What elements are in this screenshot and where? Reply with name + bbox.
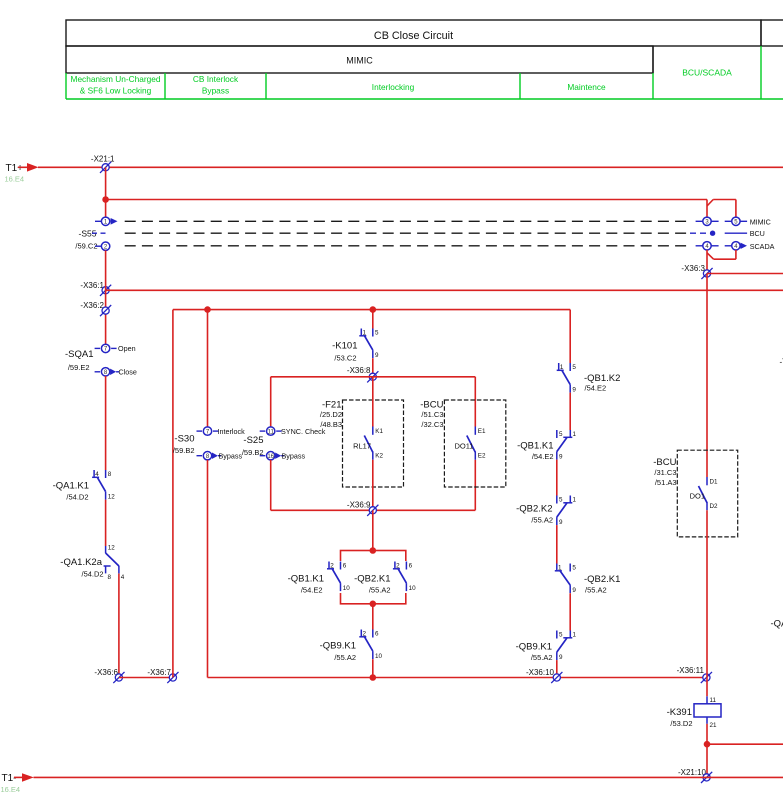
wire x707 SCADA contact to -X36:3 (706, 250, 708, 274)
terminal -X36:11 (677, 666, 712, 683)
switch -S25 contact 11 SYNC Check (260, 427, 326, 436)
switch -S55 label (75, 229, 97, 251)
svg-text:5: 5 (572, 564, 576, 571)
svg-text:Close: Close (119, 368, 137, 377)
wire T1+ arrow (18, 163, 39, 172)
header BCU/SCADA cell (653, 46, 761, 99)
svg-text:5: 5 (559, 631, 563, 638)
wire QB9.K1 to bottom bus (372, 659, 374, 677)
wire between S55 and -X36:2 (105, 250, 107, 344)
terminal -X36:2 (80, 301, 111, 316)
wire QB2.K1 to QB9.K1 right (569, 593, 571, 630)
svg-text:-QB2.K2: -QB2.K2 (516, 503, 552, 514)
svg-text:-X36:9: -X36:9 (347, 501, 371, 510)
relay box -BCU DO1 (653, 450, 737, 537)
junction parallel box top (370, 547, 377, 554)
contact -K101 (332, 310, 379, 363)
junction at left branch (102, 196, 109, 203)
svg-text:5: 5 (572, 364, 576, 371)
wire QB2.K2 to QB2.K1 (556, 525, 558, 563)
terminal -X36:7 (147, 668, 178, 683)
svg-text:1: 1 (560, 364, 564, 371)
svg-text:-T1: -T1 (780, 358, 783, 367)
wire outer box left edge (172, 310, 174, 678)
contact 5 MIMIC right (725, 217, 747, 225)
svg-text:4: 4 (121, 574, 125, 581)
contact -QB1.K2 (557, 363, 621, 394)
svg-text:6: 6 (343, 562, 347, 569)
wire K101 to -X36:8 (372, 358, 374, 377)
contact 3 MIMIC left (696, 217, 719, 225)
svg-text:21: 21 (710, 722, 718, 729)
svg-text:-X36:6: -X36:6 (94, 668, 118, 677)
svg-text:2: 2 (363, 630, 367, 637)
svg-text:/32.C3: /32.C3 (421, 420, 443, 429)
node T1- label (1, 773, 21, 794)
contact DO1 in BCU box (690, 477, 718, 510)
svg-text:12: 12 (108, 545, 116, 552)
svg-text:12: 12 (108, 494, 116, 501)
junction K101 top (370, 306, 377, 313)
clipped label right edge -QA (771, 619, 783, 630)
header title box CB Close Circuit (66, 20, 761, 46)
svg-text:10: 10 (409, 585, 417, 592)
label MIMIC (750, 217, 771, 226)
clipped label right edge upper (780, 358, 783, 367)
wire QA1.K1 to QA1.K2a (105, 500, 107, 546)
svg-text:16: 16 (267, 454, 274, 460)
contact -QB2.K1 right branch (555, 564, 621, 595)
terminal -X21:1 (91, 155, 115, 173)
svg-text:-X21:10: -X21:10 (678, 768, 707, 777)
switch -SQA1 contact 7 Open (95, 344, 136, 353)
svg-text:9: 9 (375, 352, 379, 359)
switch -S30 labels (173, 434, 195, 456)
svg-text:/55.A2: /55.A2 (585, 586, 607, 595)
wire outer box top edge (173, 309, 570, 311)
svg-text:-X36:3: -X36:3 (681, 264, 705, 273)
junction below K391 (704, 741, 711, 748)
svg-text:6: 6 (409, 562, 413, 569)
switch -S25 labels (242, 435, 264, 457)
svg-text:-QB9.K1: -QB9.K1 (516, 642, 552, 653)
switch -S55 contact 2 (95, 242, 110, 250)
svg-text:/55.A2: /55.A2 (369, 586, 391, 595)
switch -S30 contact 7 Interlock (197, 427, 246, 436)
relay coil -K391 (667, 696, 721, 729)
wire inner box right lower (474, 460, 476, 511)
svg-text:/59.B2: /59.B2 (173, 446, 195, 455)
terminal -X36:3 (681, 264, 712, 279)
wire x707 down to MIMIC contact (706, 200, 708, 218)
svg-text:-X36:7: -X36:7 (147, 668, 171, 677)
wire right branch upper jog (707, 200, 736, 218)
svg-text:-QB2.K1: -QB2.K1 (354, 574, 390, 585)
svg-text:/54.E2: /54.E2 (585, 384, 607, 393)
svg-text:-BCU: -BCU (653, 457, 676, 468)
wire QB9.K1 to -X36:10 (556, 660, 558, 677)
parallel box red rectangle (341, 551, 406, 604)
wire from -X21:1 down (105, 167, 107, 217)
header right stub box (761, 20, 783, 46)
node T1+ label (5, 163, 25, 184)
svg-text:-QB2.K1: -QB2.K1 (584, 574, 620, 585)
svg-text:BCU/SCADA: BCU/SCADA (682, 68, 732, 78)
header MIMIC box (66, 46, 653, 73)
junction S30 top (204, 306, 211, 313)
svg-text:-X36:8: -X36:8 (347, 366, 371, 375)
label BCU (750, 229, 765, 238)
svg-text:T1+: T1+ (6, 163, 24, 174)
terminal -X36:9 (347, 501, 378, 516)
svg-text:E2: E2 (478, 453, 486, 460)
wire X36:9 to parallel box (372, 510, 374, 550)
svg-text:2: 2 (330, 562, 334, 569)
contact -QB2.K1 parallel right (354, 561, 416, 595)
svg-text:-QA1.K1: -QA1.K1 (53, 480, 89, 491)
wire QA1.K2a to -X36:6 (118, 574, 120, 678)
svg-text:/55.A2: /55.A2 (531, 516, 553, 525)
relay box -BCU DO11 (420, 400, 506, 487)
svg-text:-S25: -S25 (243, 435, 263, 446)
svg-text:Bypass: Bypass (282, 452, 306, 461)
svg-text:9: 9 (559, 454, 563, 461)
wire F21 to -X36:9 (372, 460, 374, 511)
contact -QB9.K1 right branch (516, 631, 577, 663)
wire right branch lower jog (707, 250, 736, 259)
svg-text:11: 11 (710, 697, 717, 704)
svg-text:4: 4 (95, 471, 99, 478)
svg-text:1: 1 (573, 631, 577, 638)
terminal -X36:6 (94, 668, 124, 683)
terminal -X36:8 (347, 366, 378, 382)
svg-text:/59.C2: /59.C2 (75, 242, 97, 251)
svg-text:& SF6 Low Locking: & SF6 Low Locking (80, 86, 152, 96)
svg-text:/54.D2: /54.D2 (66, 493, 88, 502)
wire K391 to T1- (706, 724, 708, 778)
svg-text:D1: D1 (710, 479, 719, 486)
svg-text:-QA1.K2a: -QA1.K2a (60, 557, 102, 568)
svg-text:-X36:2: -X36:2 (80, 301, 104, 310)
svg-text:-QB1.K2: -QB1.K2 (584, 373, 620, 384)
svg-text:5: 5 (559, 431, 563, 438)
svg-text:11: 11 (268, 429, 275, 435)
switch -S25 contact 16 Bypass (260, 452, 306, 461)
svg-text:SYNC. Check: SYNC. Check (281, 427, 326, 436)
junction parallel box bottom (370, 601, 377, 608)
svg-text:10: 10 (375, 653, 383, 660)
dashed control line BCU row (125, 232, 690, 234)
svg-text:/55.A2: /55.A2 (334, 653, 356, 662)
svg-text:5: 5 (559, 496, 563, 503)
svg-text:-QB9.K1: -QB9.K1 (320, 641, 356, 652)
svg-text:Interlocking: Interlocking (372, 82, 415, 92)
contact DO11 in BCU box (454, 427, 486, 460)
svg-text:/53.D2: /53.D2 (670, 719, 692, 728)
svg-text:/54.E2: /54.E2 (532, 452, 554, 461)
wire S30 vertical lower (207, 460, 209, 678)
wire parallel box to QB9.K1 (372, 604, 374, 630)
svg-text:6: 6 (375, 630, 379, 637)
svg-text:-SQA1: -SQA1 (65, 349, 94, 360)
label SCADA (750, 242, 775, 251)
wire horizontal to transfer switch (106, 199, 707, 201)
contact 4 SCADA left (696, 242, 719, 250)
svg-text:1: 1 (573, 496, 577, 503)
svg-text:-K391: -K391 (667, 707, 692, 718)
svg-text:Mechanism Un-Charged: Mechanism Un-Charged (71, 74, 161, 84)
svg-text:9: 9 (559, 519, 563, 526)
dashed control line SCADA row (125, 245, 690, 247)
wire inner box right upper (474, 377, 476, 427)
terminal -X21:10 (678, 768, 712, 783)
wire S30 vertical upper (207, 310, 209, 427)
svg-text:Bypass: Bypass (219, 452, 243, 461)
wire K101 row into F21 (372, 377, 374, 427)
wire QB1.K1 to QB2.K2 (556, 460, 558, 496)
svg-text:9: 9 (572, 387, 576, 394)
svg-text:/51.C3: /51.C3 (421, 410, 443, 419)
wire -X36:6 to -X36:7 (119, 677, 173, 679)
BCU row blue dashes and dot (690, 231, 747, 236)
svg-text:/53.C2: /53.C2 (334, 354, 356, 363)
svg-text:SCADA: SCADA (750, 242, 775, 251)
switch -S30 contact 8 Bypass (197, 452, 243, 461)
svg-text:-QA1.K2: -QA1.K2 (771, 619, 783, 630)
svg-text:D2: D2 (710, 503, 719, 510)
svg-text:CB Close Circuit: CB Close Circuit (374, 30, 453, 42)
wire SQA1 to QA1.K1 (105, 376, 107, 470)
header green cells row (66, 73, 783, 99)
svg-text:CB Interlock: CB Interlock (193, 74, 239, 84)
wire T1+ horizontal bus (38, 166, 783, 168)
contact -QA1.K2a (60, 545, 125, 581)
wire -X36:3 to right edge (707, 273, 783, 275)
svg-text:10: 10 (343, 585, 351, 592)
svg-text:Interlock: Interlock (218, 427, 246, 436)
wire right branch vertical upper (569, 310, 571, 363)
svg-text:/51.A3: /51.A3 (655, 478, 677, 487)
svg-text:2: 2 (396, 562, 400, 569)
svg-text:-QB1.K1: -QB1.K1 (517, 441, 553, 452)
svg-text:MIMIC: MIMIC (346, 56, 373, 66)
wire inner box left upper (270, 377, 272, 427)
wire junction to right edge (707, 743, 783, 745)
svg-text:16.E4: 16.E4 (5, 175, 25, 184)
svg-text:/54.D2: /54.D2 (81, 570, 103, 579)
contact -QB2.K2 (516, 496, 576, 527)
svg-text:T1-: T1- (2, 773, 17, 784)
terminal -X36:1 (80, 281, 111, 296)
svg-text:-S30: -S30 (174, 434, 194, 445)
contact 4 SCADA right with arrow (725, 242, 747, 250)
svg-text:/54.E2: /54.E2 (301, 586, 323, 595)
svg-text:K1: K1 (375, 428, 383, 435)
svg-text:8: 8 (108, 574, 112, 581)
svg-text:-K101: -K101 (332, 341, 357, 352)
svg-text:MIMIC: MIMIC (750, 217, 771, 226)
svg-text:16.E4: 16.E4 (1, 785, 21, 794)
contact -QB1.K1 right branch (517, 430, 576, 461)
switch -S55 contact 1 (95, 217, 118, 225)
wire bottom bus S30 to -X36:11 (208, 677, 707, 679)
svg-text:Maintence: Maintence (567, 82, 606, 92)
svg-text:DO1: DO1 (690, 492, 705, 501)
wire inner box bottom edge (271, 509, 476, 511)
contact RL17 in F21 (353, 427, 383, 460)
svg-text:-X36:10: -X36:10 (526, 668, 555, 677)
wire inner box top edge (271, 376, 476, 378)
svg-text:5: 5 (375, 329, 379, 336)
switch -SQA1 labels (65, 349, 94, 372)
svg-text:9: 9 (572, 587, 576, 594)
wire QB1.K2 to QB1.K1 (569, 393, 571, 430)
svg-text:Bypass: Bypass (202, 86, 229, 96)
svg-text:Open: Open (118, 344, 136, 353)
switch -S55 middle linkage dashes (92, 232, 106, 234)
svg-text:/25.D2: /25.D2 (320, 410, 342, 419)
svg-text:-X36:11: -X36:11 (677, 666, 705, 675)
contact -QA1.K1 (53, 470, 116, 502)
terminal -X36:10 (526, 668, 562, 683)
switch -SQA1 contact 8 Close (95, 368, 137, 377)
svg-text:RL17: RL17 (353, 442, 371, 451)
contact -QB1.K1 parallel left (288, 561, 351, 595)
wire -X36:1 to right edge (106, 289, 783, 291)
svg-text:BCU: BCU (750, 229, 765, 238)
wire DO1 to K391 (706, 510, 708, 696)
svg-text:/55.A2: /55.A2 (531, 653, 553, 662)
svg-text:1: 1 (558, 564, 562, 571)
svg-text:E1: E1 (478, 428, 486, 435)
svg-text:-QB1.K1: -QB1.K1 (288, 574, 324, 585)
svg-text:1: 1 (573, 431, 577, 438)
svg-text:1: 1 (363, 329, 367, 336)
svg-text:DO11: DO11 (454, 442, 473, 451)
relay box -F21 (320, 400, 404, 487)
svg-text:/31.C3: /31.C3 (654, 468, 676, 477)
wire T1- arrow (14, 773, 34, 782)
svg-text:9: 9 (559, 654, 563, 661)
svg-text:K2: K2 (375, 453, 383, 460)
junction bottom bus (370, 674, 377, 681)
dashed control line MIMIC row (125, 220, 690, 222)
wire T1- horizontal bus (34, 776, 783, 778)
svg-text:/59.E2: /59.E2 (68, 363, 90, 372)
wire inner box left lower (270, 460, 272, 510)
svg-text:-X36:1: -X36:1 (80, 281, 104, 290)
svg-text:/48.B3: /48.B3 (320, 420, 342, 429)
contact -QB9.K1 middle (320, 630, 383, 662)
wire x707 down to DO1 (706, 274, 708, 478)
svg-text:8: 8 (108, 471, 112, 478)
